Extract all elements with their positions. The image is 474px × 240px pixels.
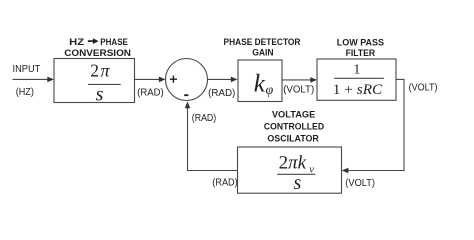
wire input arrow bbox=[13, 77, 55, 83]
block B4 box (2 pi kv / s) VCO bbox=[238, 147, 342, 193]
svg-text:(RAD): (RAD) bbox=[212, 178, 237, 189]
svg-text:k: k bbox=[254, 70, 266, 97]
svg-text:GAIN: GAIN bbox=[252, 48, 274, 59]
wire summer to B2 bbox=[208, 77, 238, 83]
svg-text:(VOLT): (VOLT) bbox=[345, 178, 375, 189]
svg-text:CONVERSION: CONVERSION bbox=[64, 48, 131, 59]
svg-text:(RAD): (RAD) bbox=[137, 88, 164, 99]
svg-text:(RAD): (RAD) bbox=[208, 88, 235, 99]
svg-text:(RAD): (RAD) bbox=[192, 113, 216, 124]
wire VCO output left and up to summer minus input bbox=[185, 102, 238, 171]
svg-text:2πk: 2πk bbox=[279, 153, 307, 174]
svg-text:1 + sRC: 1 + sRC bbox=[333, 82, 383, 98]
title block4: VOLTAGE CONTROLLED OSCILATOR bbox=[264, 110, 324, 145]
svg-text:FILTER: FILTER bbox=[346, 48, 376, 59]
svg-text:PHASE: PHASE bbox=[100, 37, 128, 48]
value 2 pi kv / s in B4 bbox=[277, 153, 315, 195]
value 1/(1+sRC) in B3 bbox=[333, 63, 384, 98]
svg-text:s: s bbox=[96, 83, 104, 105]
svg-text:1: 1 bbox=[353, 63, 360, 78]
plus sign in summer bbox=[170, 76, 177, 83]
svg-text:(HZ): (HZ) bbox=[16, 87, 34, 98]
block B1 box (2pi/s) bbox=[54, 59, 135, 103]
svg-text:(VOLT): (VOLT) bbox=[409, 82, 438, 93]
title block1: HZ -> PHASE CONVERSION bbox=[64, 37, 131, 59]
svg-text:HZ: HZ bbox=[69, 37, 84, 48]
svg-text:INPUT: INPUT bbox=[13, 64, 41, 75]
wire B1 to summer bbox=[135, 77, 166, 83]
svg-text:s: s bbox=[294, 172, 302, 194]
svg-text:2: 2 bbox=[90, 60, 99, 80]
wire B2 to B3 bbox=[282, 77, 317, 83]
block B3 box (1/(1+sRC)) bbox=[317, 59, 396, 100]
svg-text:CONTROLLED: CONTROLLED bbox=[264, 121, 324, 132]
svg-text:OSCILATOR: OSCILATOR bbox=[267, 134, 319, 145]
wire B3 to feedback corner, down, and into VCO bbox=[342, 79, 404, 173]
svg-text:LOW PASS: LOW PASS bbox=[337, 37, 384, 48]
title block2: PHASE DETECTOR GAIN bbox=[224, 37, 301, 59]
svg-text:PHASE DETECTOR: PHASE DETECTOR bbox=[224, 37, 301, 48]
svg-text:VOLTAGE: VOLTAGE bbox=[272, 110, 316, 121]
block B2 box (k_phi) bbox=[238, 60, 282, 102]
title block3: LOW PASS FILTER bbox=[337, 37, 384, 59]
svg-text:(VOLT): (VOLT) bbox=[283, 84, 314, 95]
minus sign in summer bbox=[184, 94, 188, 96]
svg-text:π: π bbox=[101, 60, 111, 80]
summing junction bbox=[166, 59, 208, 101]
value 2pi/s in B1 bbox=[88, 60, 121, 105]
svg-text:φ: φ bbox=[266, 83, 274, 98]
value k_phi in B2 bbox=[254, 70, 274, 98]
